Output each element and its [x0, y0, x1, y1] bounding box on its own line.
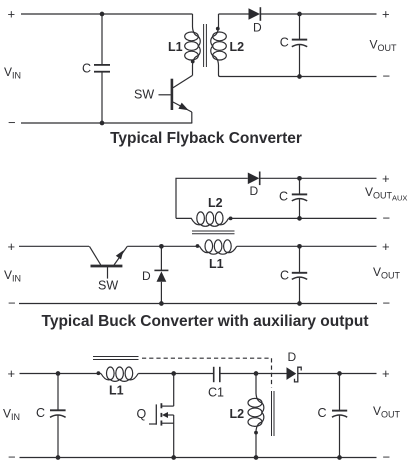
- svg-text:VOUT: VOUT: [370, 38, 398, 54]
- wire L1 to output circuit2: [237, 245, 377, 247]
- node junction dot output top circuit2: [297, 244, 302, 249]
- capacitor C output circuit1: [292, 14, 307, 77]
- capacitor C output circuit2: [292, 246, 307, 303]
- inductor L2 circuit3: [248, 374, 264, 458]
- svg-text:SW: SW: [134, 88, 154, 102]
- wire aux bottom rail circuit2: [229, 217, 377, 219]
- svg-text:L1: L1: [168, 40, 183, 54]
- node junction dot output bottom circuit2: [297, 301, 302, 306]
- svg-text:+: +: [382, 366, 390, 381]
- svg-text:+: +: [382, 171, 390, 186]
- svg-text:L1: L1: [109, 384, 124, 398]
- transformer phase dot L1 circuit1: [191, 60, 195, 64]
- svg-text:+: +: [8, 366, 16, 381]
- node junction dot bottom C circuit1: [100, 121, 105, 126]
- svg-text:D: D: [142, 269, 151, 283]
- svg-text:C: C: [82, 62, 91, 76]
- transformer winding L1 circuit1: [185, 14, 201, 76]
- wire rail SW to L1 circuit2: [127, 245, 199, 247]
- wire bottom rail circuit3: [20, 457, 377, 459]
- capacitor C1 circuit3: [214, 367, 256, 382]
- node junction dot diode top circuit2: [159, 244, 164, 249]
- node junction dot Q source circuit3: [171, 455, 176, 460]
- svg-text:C: C: [36, 406, 45, 420]
- svg-text:VOUT: VOUT: [373, 265, 401, 281]
- node junction dot L2 top circuit3: [254, 371, 259, 376]
- svg-text:L2: L2: [230, 407, 245, 421]
- node junction dot output bottom circuit3: [337, 455, 342, 460]
- wire L2 top to diode circuit1: [219, 13, 249, 15]
- wire diode to plus circuit1: [260, 13, 376, 15]
- capacitor C aux circuit2: [292, 178, 307, 218]
- node junction dot aux bottom circuit2: [297, 216, 302, 221]
- svg-text:L2: L2: [230, 40, 245, 54]
- svg-text:C1: C1: [208, 386, 224, 400]
- wire aux diode to plus circuit2: [260, 177, 377, 179]
- transistor SW circuit2: [89, 246, 127, 278]
- node junction dot output top circuit3: [337, 371, 342, 376]
- svg-text:+: +: [8, 7, 16, 22]
- wire diode to output circuit3: [298, 373, 377, 375]
- node junction dot L2 bottom rail circuit3: [254, 455, 259, 460]
- svg-text:C: C: [280, 36, 289, 50]
- svg-text:−: −: [383, 210, 391, 225]
- transformer phase dot L2 circuit1: [216, 27, 220, 31]
- diode D circuit1: [249, 7, 261, 21]
- svg-text:Typical Buck Converter with au: Typical Buck Converter with auxiliary ou…: [42, 313, 369, 330]
- transistor SW circuit1: [159, 76, 193, 124]
- node junction dot output bottom circuit1: [297, 74, 302, 79]
- svg-text:−: −: [383, 450, 391, 465]
- schottky diode D circuit3: [287, 367, 302, 382]
- svg-text:Q: Q: [137, 407, 147, 421]
- transformer core circuit3: [93, 357, 139, 360]
- transformer core L2 circuit3: [272, 391, 275, 436]
- svg-text:D: D: [250, 184, 259, 198]
- wire aux riser circuit2: [176, 178, 248, 218]
- svg-text:C: C: [279, 190, 288, 204]
- svg-text:VOUT: VOUT: [373, 404, 401, 420]
- wire bottom rail circuit1: [21, 122, 192, 124]
- transformer core circuit2: [192, 231, 235, 234]
- wire output bottom rail circuit1: [233, 76, 377, 78]
- wire top rail left circuit2: [19, 245, 89, 247]
- svg-text:+: +: [382, 239, 390, 254]
- wire bottom rail circuit2: [19, 303, 377, 305]
- svg-text:−: −: [383, 69, 391, 84]
- node junction dot input cap bottom circuit3: [56, 455, 61, 460]
- inductor phase dot L2 circuit2: [229, 217, 233, 221]
- inductor phase dot L1 circuit2: [196, 244, 200, 248]
- transformer core circuit1: [204, 24, 207, 67]
- node junction dot diode bottom circuit2: [159, 301, 164, 306]
- svg-text:Typical Flyback Converter: Typical Flyback Converter: [110, 130, 302, 147]
- inductor phase dot L1 circuit3: [97, 371, 101, 375]
- svg-text:−: −: [8, 450, 16, 465]
- svg-text:C: C: [280, 269, 289, 283]
- diode D aux circuit2: [248, 172, 260, 186]
- mosfet Q circuit3: [149, 374, 174, 458]
- svg-text:−: −: [8, 115, 16, 130]
- svg-text:+: +: [382, 7, 390, 22]
- svg-text:SW: SW: [98, 279, 118, 293]
- inductor L1 circuit2: [200, 240, 237, 254]
- capacitor C input circuit1: [94, 14, 110, 123]
- node junction dot top C circuit1: [100, 12, 105, 17]
- inductor phase dot L2 circuit3: [254, 431, 258, 435]
- capacitor C output circuit3: [332, 374, 347, 458]
- wire top rail left circuit3: [20, 373, 102, 375]
- inductor L1 circuit3: [101, 367, 138, 381]
- svg-text:VIN: VIN: [4, 65, 21, 81]
- svg-text:L2: L2: [208, 196, 223, 210]
- capacitor C input circuit3: [50, 374, 66, 458]
- svg-text:VOUTAUX: VOUTAUX: [365, 185, 407, 203]
- inductor L2 circuit2: [176, 212, 229, 226]
- svg-text:VIN: VIN: [3, 407, 20, 423]
- transformer winding L2 circuit1: [211, 14, 233, 77]
- svg-text:−: −: [8, 296, 16, 311]
- node junction dot Q drain circuit3: [171, 371, 176, 376]
- coupling dashed line circuit3: [142, 358, 272, 387]
- wire node to diode circuit3: [256, 373, 287, 375]
- diode D circuit2: [154, 246, 168, 303]
- svg-text:C: C: [318, 406, 327, 420]
- svg-text:+: +: [8, 239, 16, 254]
- svg-text:D: D: [288, 350, 297, 364]
- svg-text:VIN: VIN: [4, 268, 21, 284]
- wire L1 to Q node circuit3: [138, 373, 214, 375]
- svg-text:D: D: [253, 21, 262, 35]
- node junction dot input cap top circuit3: [56, 371, 61, 376]
- node junction dot output top circuit1: [297, 12, 302, 17]
- wire top rail circuit1: [21, 13, 193, 15]
- svg-text:L1: L1: [209, 257, 224, 271]
- svg-text:−: −: [383, 296, 391, 311]
- node junction dot aux top circuit2: [297, 176, 302, 181]
